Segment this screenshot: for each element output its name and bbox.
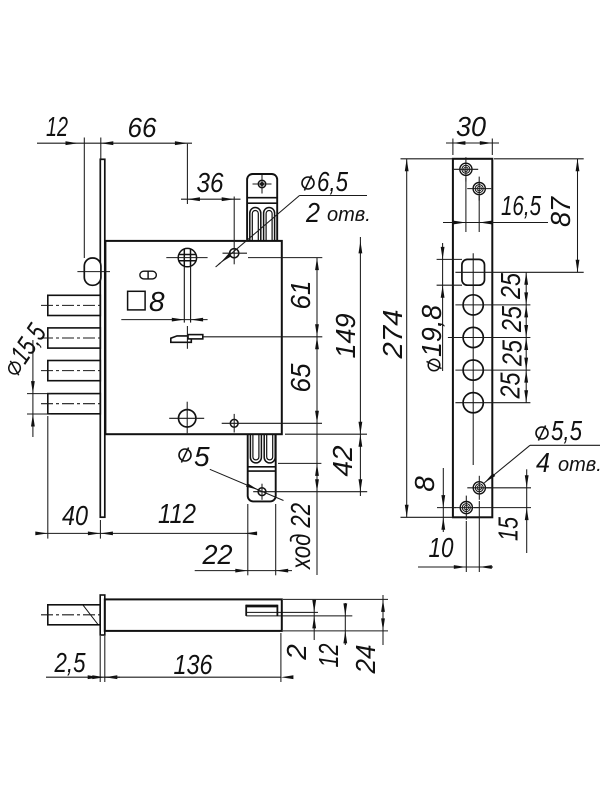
svg-text:149: 149 bbox=[330, 314, 361, 359]
follower horizontal centerline bbox=[166, 257, 207, 259]
svg-text:16,5: 16,5 bbox=[501, 190, 541, 221]
dim 19,8 bbox=[442, 243, 444, 371]
dim 149 / 42 line bbox=[285, 237, 367, 496]
svg-text:40: 40 bbox=[62, 500, 88, 531]
oval slot bbox=[140, 271, 156, 279]
slot in bottom view bbox=[246, 605, 352, 616]
dim 22 bottom bbox=[195, 504, 292, 575]
svg-text:12: 12 bbox=[46, 111, 68, 142]
dim 2,5 bbox=[46, 636, 120, 682]
svg-text:6,5: 6,5 bbox=[317, 166, 348, 197]
latch tab with rounded top bbox=[247, 174, 277, 241]
dim 36 bbox=[181, 198, 241, 200]
svg-text:2: 2 bbox=[305, 197, 320, 228]
svg-text:25: 25 bbox=[495, 372, 526, 399]
svg-text:61: 61 bbox=[285, 281, 316, 310]
svg-text:отв.: отв. bbox=[327, 204, 371, 226]
extension for 61 top bbox=[248, 257, 322, 259]
dim 2 bbox=[313, 600, 315, 640]
cam flag bbox=[171, 336, 192, 342]
bolt 2 bbox=[48, 328, 101, 348]
lower big hole bbox=[179, 410, 196, 427]
svg-text:25: 25 bbox=[497, 340, 528, 367]
dim 274 bbox=[401, 159, 453, 518]
bolt bottom view bbox=[48, 605, 100, 625]
body bottom view bbox=[105, 599, 282, 631]
svg-text:8: 8 bbox=[149, 286, 165, 317]
svg-text:2,5: 2,5 bbox=[54, 647, 86, 678]
cam extension line to dim bbox=[203, 336, 322, 338]
cylinder cap centerline bbox=[77, 271, 110, 273]
mounting hole bottom (6.5) bbox=[230, 419, 238, 427]
top screw hole bbox=[460, 163, 472, 175]
svg-text:ход 22: ход 22 bbox=[285, 503, 316, 571]
bottom small hole (5,5) bbox=[473, 482, 485, 494]
svg-text:25: 25 bbox=[496, 306, 527, 333]
dim 24 bbox=[283, 595, 388, 645]
dim 10 bbox=[418, 501, 493, 572]
svg-text:22: 22 bbox=[202, 539, 233, 570]
label 5 with leader bbox=[179, 448, 191, 463]
bolt 4 bbox=[48, 394, 101, 414]
svg-text:65: 65 bbox=[285, 363, 316, 392]
spindle follower circle with grid bbox=[178, 248, 196, 266]
svg-text:4: 4 bbox=[536, 447, 550, 478]
svg-text:15: 15 bbox=[493, 517, 524, 541]
svg-text:42: 42 bbox=[327, 445, 358, 476]
plate holes centerline vertical bbox=[472, 253, 474, 465]
cylinder cap on faceplate bbox=[84, 258, 101, 285]
dim 16,5 bbox=[443, 178, 548, 232]
bolt diagonal bbox=[83, 605, 98, 625]
svg-text:12: 12 bbox=[313, 643, 344, 667]
deadbolt spring loop 2 outer bbox=[264, 434, 275, 463]
dim 12 bottom bbox=[344, 603, 346, 645]
dim 8 right view bbox=[437, 468, 456, 532]
spring loop 2 outer bbox=[264, 208, 275, 241]
dim 25 chain bbox=[525, 272, 527, 402]
faceplate side profile bbox=[100, 159, 105, 517]
dim 12 bbox=[37, 138, 192, 259]
svg-text:25: 25 bbox=[495, 273, 526, 300]
deadbolt spring loop 1 outer bbox=[250, 434, 261, 463]
svg-text:отв.: отв. bbox=[558, 454, 600, 476]
bolt centerlines bbox=[41, 305, 104, 403]
dim 15 bbox=[474, 469, 531, 553]
dim 8 follower bbox=[121, 319, 207, 321]
deadbolt body with rounded bottom tab bbox=[248, 434, 276, 501]
follower shaft double line bbox=[183, 267, 185, 323]
spring loop 1 outer bbox=[250, 208, 261, 241]
svg-text:5: 5 bbox=[194, 441, 210, 472]
svg-text:19,8: 19,8 bbox=[416, 305, 447, 357]
latch tab hole bbox=[258, 180, 265, 187]
bolt 3 bbox=[48, 361, 101, 381]
latch band bbox=[247, 197, 277, 199]
lock body bbox=[105, 241, 281, 434]
dim 30 bbox=[446, 139, 499, 156]
hod 22 bbox=[278, 462, 321, 464]
svg-text:136: 136 bbox=[174, 649, 213, 680]
bottom screw hole bbox=[460, 502, 472, 514]
deadbolt spring loop 1 inner bbox=[253, 434, 259, 460]
top small hole (5,5) bbox=[473, 183, 485, 195]
spring loop 2 inner bbox=[266, 211, 272, 241]
svg-text:274: 274 bbox=[377, 310, 408, 360]
dim 66 bbox=[175, 141, 188, 145]
deadbolt hole (5) bbox=[258, 488, 266, 496]
svg-text:66: 66 bbox=[128, 112, 157, 143]
square 8 label bbox=[128, 291, 146, 310]
dim 87 bbox=[494, 159, 584, 272]
cylinder hole D-shaped (19,8) bbox=[462, 259, 485, 285]
dim 61 / 65 / hod22 line bbox=[316, 258, 318, 575]
bolt 1 bbox=[48, 295, 101, 315]
label 5,5 4 holes bbox=[530, 444, 600, 446]
svg-text:2: 2 bbox=[281, 644, 312, 661]
dim 136 bbox=[105, 633, 281, 682]
faceplate bottom view bbox=[100, 595, 105, 635]
hole row holes bbox=[463, 295, 483, 315]
dim 40 / 112 bbox=[40, 416, 250, 539]
svg-text:8: 8 bbox=[409, 476, 440, 492]
svg-text:10: 10 bbox=[429, 532, 454, 563]
deadbolt spring loop 2 inner bbox=[267, 434, 273, 460]
mounting hole top (6.5) bbox=[230, 249, 239, 258]
hole centerlines bbox=[437, 259, 584, 402]
svg-text:5,5: 5,5 bbox=[551, 415, 582, 446]
svg-text:30: 30 bbox=[456, 111, 486, 142]
svg-text:36: 36 bbox=[197, 167, 224, 198]
svg-text:112: 112 bbox=[158, 498, 196, 529]
svg-text:24: 24 bbox=[350, 645, 381, 675]
deadbolt band bbox=[248, 466, 276, 468]
svg-text:87: 87 bbox=[545, 196, 576, 227]
dim 15,5 bbox=[27, 340, 51, 437]
faceplate front bbox=[453, 159, 492, 518]
spring loop 1 inner bbox=[252, 211, 258, 241]
bolt centerline bottom view bbox=[41, 614, 104, 616]
label 6,5 2 holes with leader bbox=[300, 195, 368, 197]
